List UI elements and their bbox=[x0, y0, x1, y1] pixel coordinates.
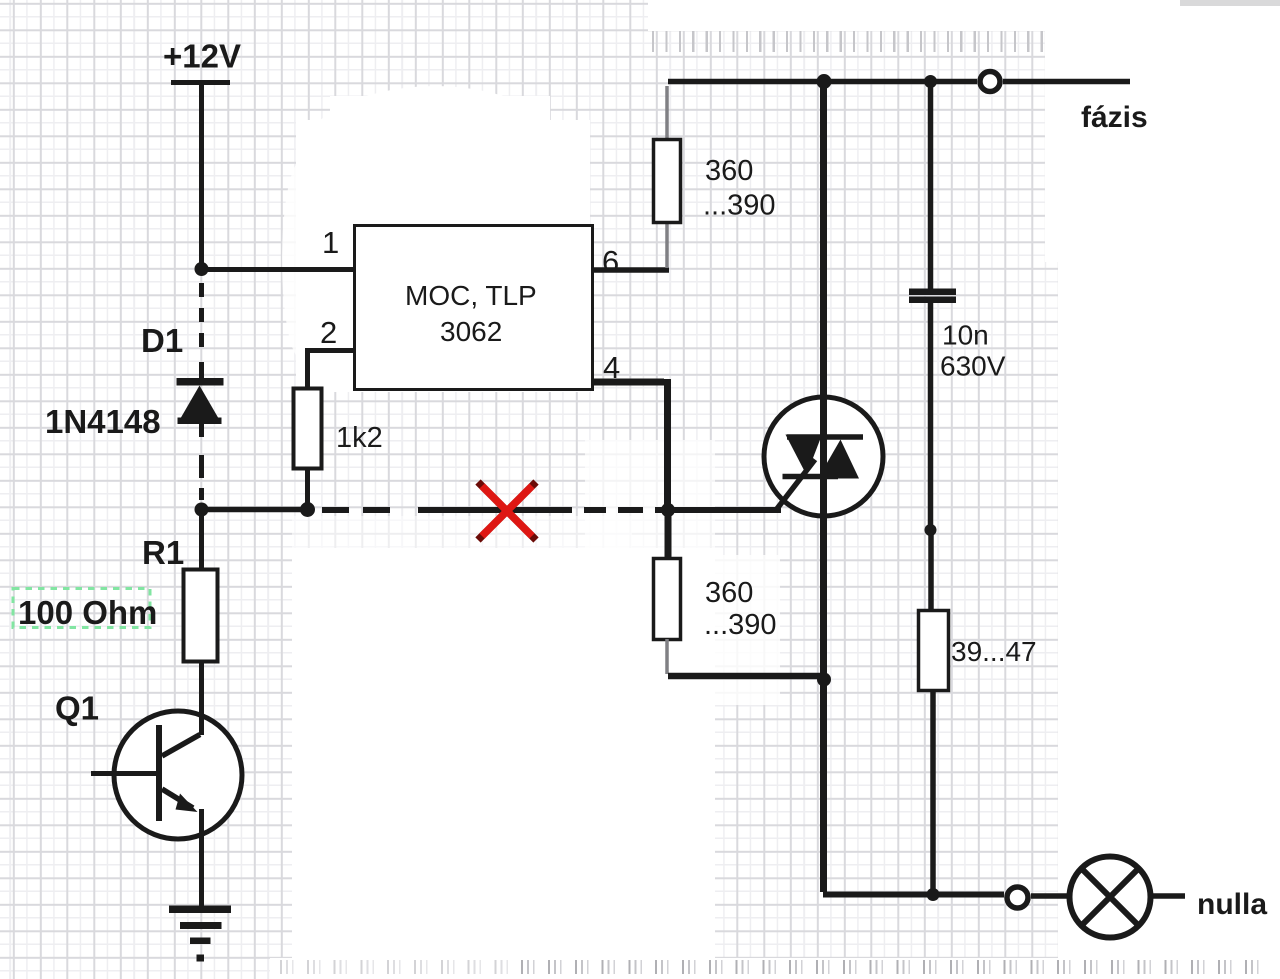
wire R2 to node C bbox=[305, 468, 310, 503]
wire +12V down to node A bbox=[199, 84, 204, 267]
svg-text:39...47: 39...47 bbox=[951, 636, 1037, 667]
wire node B down to R1 bbox=[199, 509, 204, 569]
pin 2 label bbox=[320, 315, 337, 350]
node H (R5 junction bottom) bbox=[927, 888, 940, 901]
node E (triac branch) bbox=[817, 74, 832, 89]
wire pin 6 to resistor R3 elbow bbox=[593, 267, 669, 273]
label 1k2 bbox=[336, 422, 383, 454]
node A (junction of +12V, D1, pin1 wire) bbox=[195, 262, 209, 276]
wire node F down to capacitor C1 bbox=[928, 82, 934, 289]
label +12V bbox=[163, 38, 241, 75]
+12V supply terminal bar bbox=[171, 80, 230, 85]
white region lower middle bbox=[292, 548, 715, 958]
triac gate diagonal bbox=[776, 460, 815, 511]
gray bar top right corner bbox=[1180, 0, 1280, 6]
green selection box 100 Ohm bbox=[13, 589, 150, 628]
Q1 emitter vertical bbox=[199, 809, 204, 906]
label 1N4148 bbox=[45, 403, 161, 440]
label 100 Ohm bbox=[18, 594, 157, 631]
svg-text:10n: 10n bbox=[942, 320, 989, 351]
node G (triac anode2 junction) bbox=[817, 673, 831, 687]
lamp L1 bbox=[1070, 857, 1151, 938]
wire C1 down to node I bbox=[928, 303, 934, 527]
gate wire node D to triac bbox=[668, 507, 781, 513]
resistor R1 bbox=[184, 570, 218, 662]
svg-text:MOC, TLP: MOC, TLP bbox=[405, 280, 537, 311]
svg-text:+12V: +12V bbox=[163, 38, 241, 75]
diode D1 cathode bar bbox=[177, 378, 224, 386]
pin 4 label bbox=[603, 350, 620, 385]
svg-text:3062: 3062 bbox=[440, 316, 502, 347]
wire terminal to fazis bbox=[1003, 79, 1130, 85]
open terminal nulla bbox=[1007, 887, 1028, 908]
Q1 base bar bbox=[156, 725, 162, 821]
svg-text:...390: ...390 bbox=[704, 609, 777, 641]
node F (capacitor branch) bbox=[924, 75, 937, 88]
triac T1 internal vertical bbox=[820, 397, 827, 516]
gray lead resistor R3 lower bbox=[665, 222, 669, 268]
label fazis bbox=[1081, 101, 1148, 134]
label D1 bbox=[141, 322, 183, 359]
gray lead top resistor R3 upper bbox=[665, 86, 669, 140]
resistor R4 360...390 bottom bbox=[654, 559, 681, 640]
pin 1 label bbox=[322, 225, 339, 260]
resistor R2 1k2 bbox=[294, 389, 322, 469]
label R5 value bbox=[951, 636, 1037, 667]
Q1 emitter diagonal bbox=[162, 789, 193, 808]
label R1 bbox=[142, 534, 184, 571]
svg-text:1N4148: 1N4148 bbox=[45, 403, 161, 440]
svg-text:630V: 630V bbox=[940, 351, 1006, 382]
diode D1 dashed anode wire bbox=[199, 283, 204, 380]
svg-text:100 Ohm: 100 Ohm bbox=[18, 594, 157, 631]
node D (junction pin4 wire / gate / R4) bbox=[661, 503, 675, 517]
svg-text:1: 1 bbox=[322, 225, 339, 260]
triac T1 top bar bbox=[787, 434, 863, 440]
node I (junction on capacitor branch) bbox=[925, 524, 937, 536]
wire R4 to triac bottom bbox=[668, 673, 822, 680]
Q1 collector diagonal bbox=[162, 735, 200, 757]
wire R1 to Q1 collector bbox=[199, 661, 204, 735]
open terminal fazis bbox=[980, 72, 1000, 92]
bottom wire to terminal bbox=[823, 892, 1004, 898]
white cloud around optocoupler bbox=[298, 86, 572, 236]
Q1 base wire bbox=[91, 771, 158, 776]
svg-text:fázis: fázis bbox=[1081, 101, 1148, 134]
gray lead below R4 bbox=[665, 639, 669, 674]
triac T1 circle bbox=[764, 397, 883, 516]
ground symbol bbox=[169, 906, 231, 962]
label R4 value bbox=[704, 577, 777, 641]
phase top wire bbox=[668, 79, 977, 85]
svg-text:360: 360 bbox=[705, 577, 753, 609]
wire terminal to lamp bbox=[1031, 893, 1067, 899]
capacitor C1 plates bbox=[909, 289, 956, 304]
svg-text:R1: R1 bbox=[142, 534, 184, 571]
wire node E down to triac bbox=[820, 84, 827, 399]
white top strip with tick fringe bbox=[648, 0, 1062, 31]
wire node A to pin 1 bbox=[201, 267, 354, 272]
label C1 value bbox=[940, 320, 1006, 382]
optocoupler U1 label bbox=[405, 280, 537, 347]
dashed gate wire node C to node D bbox=[322, 507, 668, 513]
node B (junction D1 / R1 / wire to node C) bbox=[195, 503, 209, 517]
white bottom strip with ticks bbox=[270, 958, 1280, 979]
wire node D down to R4 bbox=[665, 510, 672, 559]
wire R5 down to node H bbox=[930, 690, 936, 892]
triac T1 bottom bar bbox=[783, 474, 839, 480]
wire node B to node C bbox=[201, 507, 307, 513]
optocoupler U1 box bbox=[355, 226, 593, 390]
wire triac down to bottom bbox=[820, 514, 827, 892]
pin 6 label bbox=[602, 244, 619, 279]
label R3 value bbox=[703, 155, 776, 222]
svg-text:Q1: Q1 bbox=[55, 690, 99, 727]
diode D1 triangle bbox=[178, 386, 222, 425]
svg-text:...390: ...390 bbox=[703, 190, 776, 222]
triac T1 upper triangle bbox=[786, 435, 823, 476]
white right strip bbox=[1058, 0, 1280, 979]
wire lamp to nulla label bbox=[1150, 893, 1185, 899]
wire node I to R5 bbox=[928, 530, 934, 611]
wire pin 4 elbow down to node D bbox=[593, 379, 668, 506]
resistor R5 39...47 bbox=[919, 611, 949, 691]
svg-text:360: 360 bbox=[705, 155, 753, 187]
resistor R3 360...390 top bbox=[654, 140, 681, 223]
label Q1 bbox=[55, 690, 99, 727]
triac T1 lower triangle bbox=[818, 440, 859, 479]
svg-text:6: 6 bbox=[602, 244, 619, 279]
svg-text:1k2: 1k2 bbox=[336, 422, 383, 454]
svg-text:2: 2 bbox=[320, 315, 337, 350]
diode D1 lower dashed lead bbox=[199, 423, 204, 500]
Q1 emitter arrowhead bbox=[176, 794, 198, 813]
red X cross-out mark bbox=[478, 482, 536, 540]
svg-text:nulla: nulla bbox=[1197, 888, 1267, 921]
transistor Q1 circle bbox=[114, 711, 242, 839]
wire pin 2 to resistor R2 bbox=[308, 351, 355, 389]
label nulla bbox=[1197, 888, 1267, 921]
svg-text:D1: D1 bbox=[141, 322, 183, 359]
node C (junction R2 / dashed wire) bbox=[300, 502, 315, 517]
